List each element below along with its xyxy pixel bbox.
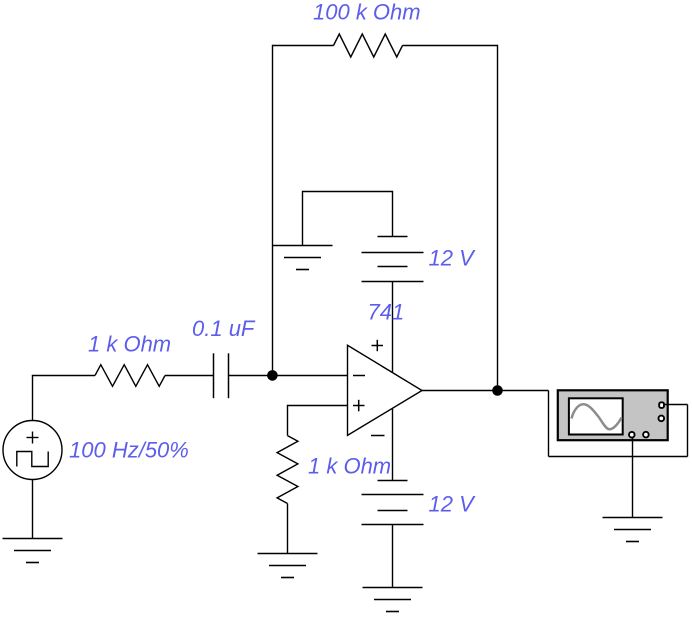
- resistor R2 100k feedback: [334, 34, 403, 57]
- wire node to inverting input: [273, 375, 348, 377]
- ground for scope: [603, 518, 663, 542]
- op-amp V- pin marker minus: [371, 435, 385, 437]
- node B output junction dot: [492, 385, 503, 396]
- oscilloscope screen: [569, 398, 623, 434]
- resistor R1 1k input: [95, 365, 165, 387]
- wire scope ground stem: [632, 438, 634, 518]
- ground for R3: [258, 554, 318, 578]
- op-amp U1 triangle: [348, 345, 423, 435]
- wire R1 to C1: [165, 375, 214, 377]
- wire top feedback right segment: [403, 45, 498, 47]
- svg-text:100 Hz/50%: 100 Hz/50%: [69, 437, 189, 462]
- oscilloscope terminal button 3: [629, 432, 635, 438]
- oscilloscope terminal button 4: [643, 432, 649, 438]
- wire feedback left vertical: [272, 45, 274, 376]
- oscilloscope sine trace: [572, 404, 622, 429]
- oscilloscope terminal button 1: [659, 402, 664, 408]
- wire ground stem top middle: [302, 191, 304, 246]
- resistor R3 1k vertical: [277, 436, 298, 504]
- svg-text:12 V: 12 V: [429, 492, 477, 517]
- op-amp non-inverting input marker plus: [353, 400, 365, 412]
- wire source to R1: [32, 375, 95, 377]
- battery V1 12V positive supply: [362, 237, 424, 282]
- wire non-inverting input horizontal: [288, 405, 348, 407]
- oscilloscope terminal button 2: [659, 416, 665, 422]
- wire C1 to node A: [229, 375, 273, 377]
- wire non-inverting down to R3: [287, 405, 289, 436]
- svg-text:100 k Ohm: 100 k Ohm: [313, 0, 421, 24]
- wire V- battery to ground: [392, 525, 394, 588]
- wire feedback right vertical: [497, 45, 499, 391]
- node A junction dot: [267, 370, 278, 381]
- oscilloscope body: [558, 390, 668, 440]
- wire top feedback left segment: [273, 45, 334, 47]
- wire output down toward scope bottom: [548, 391, 550, 457]
- wire op-amp output: [422, 390, 549, 392]
- svg-text:12 V: 12 V: [429, 246, 477, 271]
- svg-text:1 k Ohm: 1 k Ohm: [308, 453, 391, 478]
- wire source top stem: [32, 376, 34, 421]
- wire ground-to-battery link: [303, 191, 393, 193]
- wire V+ supply to op-amp: [392, 282, 394, 373]
- wire battery V1 top stem: [392, 191, 394, 237]
- svg-text:0.1 uF: 0.1 uF: [192, 316, 256, 341]
- ground for V+ battery: [273, 246, 333, 270]
- op-amp inverting input marker minus: [353, 375, 365, 377]
- wire R3 to ground: [287, 504, 289, 554]
- wire V- from op-amp: [392, 408, 394, 480]
- wire scope right entry: [664, 404, 688, 406]
- op-amp V+ pin marker plus: [372, 340, 384, 351]
- source V2 square wave generator: [3, 421, 62, 480]
- wire source bottom stem: [32, 479, 34, 538]
- svg-text:1 k Ohm: 1 k Ohm: [88, 332, 171, 357]
- capacitor C1 0.1uF: [214, 353, 229, 398]
- battery V3 12V negative supply: [362, 481, 424, 525]
- wire scope right vertical: [687, 405, 689, 457]
- svg-text:741: 741: [368, 300, 405, 325]
- ground for source: [3, 539, 63, 563]
- wire scope bottom horizontal: [549, 456, 688, 458]
- ground for V- battery: [363, 588, 423, 612]
